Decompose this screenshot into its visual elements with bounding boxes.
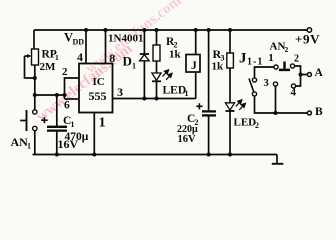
svg-text:1: 1 [71, 120, 75, 129]
svg-text:LED: LED [234, 117, 257, 129]
svg-text:6: 6 [64, 100, 70, 112]
svg-text:AN: AN [11, 135, 29, 149]
svg-text:1k: 1k [169, 49, 182, 61]
svg-text:LED: LED [163, 85, 187, 97]
svg-text:1N4001: 1N4001 [108, 33, 143, 45]
svg-text:2: 2 [62, 66, 68, 78]
svg-text:2: 2 [255, 121, 259, 130]
svg-text:8: 8 [109, 51, 115, 65]
svg-text:1: 1 [27, 142, 31, 151]
svg-text:D: D [123, 54, 132, 69]
svg-text:AN: AN [270, 41, 286, 53]
svg-text:2: 2 [285, 45, 289, 54]
svg-text:1: 1 [185, 89, 189, 98]
svg-text:4: 4 [291, 87, 297, 99]
svg-text:1-1: 1-1 [247, 57, 263, 68]
svg-text:16V: 16V [58, 137, 79, 151]
svg-text:J: J [191, 60, 197, 72]
svg-text:2: 2 [294, 54, 299, 65]
svg-text:DD: DD [73, 38, 85, 47]
svg-text:1: 1 [268, 52, 274, 64]
svg-text:2M: 2M [40, 61, 57, 73]
svg-text:555: 555 [89, 89, 107, 103]
svg-text:3: 3 [117, 85, 123, 99]
svg-text:IC: IC [93, 76, 105, 88]
svg-text:1: 1 [99, 116, 106, 131]
svg-text:1k: 1k [212, 61, 225, 73]
svg-text:+9V: +9V [295, 32, 320, 47]
svg-text:4: 4 [77, 50, 83, 64]
svg-text:1: 1 [132, 62, 136, 71]
svg-text:1: 1 [55, 53, 59, 62]
svg-text:A: A [315, 67, 324, 79]
svg-text:16V: 16V [178, 134, 197, 145]
svg-text:B: B [315, 106, 323, 118]
svg-text:3: 3 [264, 78, 269, 89]
svg-text:J: J [239, 51, 247, 67]
